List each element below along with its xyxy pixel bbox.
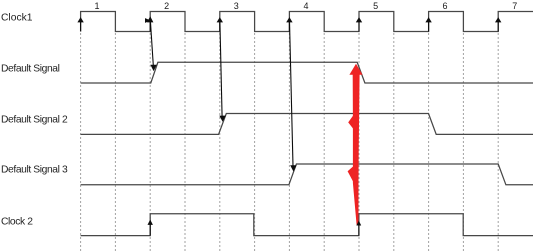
cycle numbers [94, 1, 517, 11]
svg-text:2: 2 [164, 1, 169, 11]
gridline at clock edge 7 [288, 33, 290, 251]
shaft clock1 edge6 arrow [428, 22, 430, 32]
gridline at clock edge 5 [219, 33, 221, 251]
shaft arrow edge4 to Default Signal 3 [290, 22, 294, 166]
gridline at clock edge 11 [428, 33, 430, 251]
svg-text:3: 3 [234, 1, 239, 11]
red arrowhead at Default Signal fall [349, 64, 362, 75]
Clock 2 waveform [81, 214, 533, 236]
red arrowhead at Default Signal 3 [348, 166, 354, 182]
up arrowhead clock1 edge4 [286, 17, 292, 22]
gridline at clock edge 10 [393, 33, 395, 251]
red arrowhead at Default Signal 2 [348, 115, 354, 130]
gridline at clock edge 4 [184, 33, 186, 251]
gridline at clock edge 1 [80, 33, 82, 251]
svg-text:Clock1: Clock1 [1, 12, 33, 23]
gridline at clock edge 3 [149, 33, 151, 251]
gridline at clock edge 6 [254, 33, 256, 251]
shaft arrow edge3 to Default Signal 2 [220, 22, 222, 118]
Default Signal 2 waveform [81, 114, 533, 135]
svg-text:Default Signal 3: Default Signal 3 [1, 164, 68, 175]
shaft clock2 edge2 arrow [358, 224, 360, 236]
up arrowhead clock2 edge1 [148, 220, 153, 225]
black arrow shafts [81, 21, 499, 236]
shaft arrow edge2 to Default Signal [150, 21, 153, 66]
up arrowhead clock1 edge1 [77, 17, 83, 22]
svg-text:Default Signal 2: Default Signal 2 [1, 114, 68, 125]
Default Signal 3 waveform [81, 164, 533, 185]
up arrowhead clock2 edge2 [356, 221, 361, 226]
black clock edge arrows [77, 16, 501, 225]
down arrowhead on Default Signal 3 rise [290, 165, 296, 171]
gridline at clock edge 13 [497, 33, 499, 251]
shaft clock1 edge5 arrow [358, 22, 360, 32]
svg-text:5: 5 [373, 1, 378, 11]
gridline at clock edge 9 [358, 33, 360, 251]
shaft clock2 edge1 arrow [149, 224, 151, 236]
down arrowhead on Default Signal rise [150, 65, 156, 71]
shaft clock1 edge2 arrow [149, 22, 151, 32]
up arrowhead clock1 edge3 [217, 17, 223, 22]
up arrowhead clock1 edge7 [495, 17, 501, 22]
up arrowhead clock1 edge6 [425, 17, 431, 22]
red arrow shaft bundle [353, 74, 360, 225]
svg-text:4: 4 [303, 1, 308, 11]
Clock1 waveform [81, 12, 533, 32]
svg-text:Clock 2: Clock 2 [1, 216, 33, 227]
svg-text:6: 6 [442, 1, 447, 11]
gridline at clock edge 2 [114, 33, 116, 251]
shaft clock1 edge3 arrow [219, 22, 221, 32]
up arrowhead clock1 edge2 [147, 16, 153, 22]
gridline at clock edge 8 [323, 33, 325, 251]
Default Signal waveform [81, 62, 533, 83]
up arrowhead clock1 edge5 [356, 17, 362, 22]
gridline at clock edge 12 [462, 33, 464, 251]
svg-text:7: 7 [512, 1, 517, 11]
svg-text:1: 1 [94, 1, 99, 11]
down arrowhead on Default Signal 2 rise [219, 116, 226, 122]
right arrowhead into clock1 edge2 [145, 18, 151, 23]
signal name labels [1, 12, 68, 227]
shaft clock1 edge1 arrow [80, 22, 82, 32]
svg-text:Default Signal: Default Signal [1, 64, 60, 75]
shaft clock1 edge7 arrow [497, 22, 499, 32]
red violation arrows from Clock 2 rising edge [348, 64, 363, 225]
shaft clock1 edge4 arrow [288, 22, 290, 32]
waveforms [81, 12, 533, 236]
